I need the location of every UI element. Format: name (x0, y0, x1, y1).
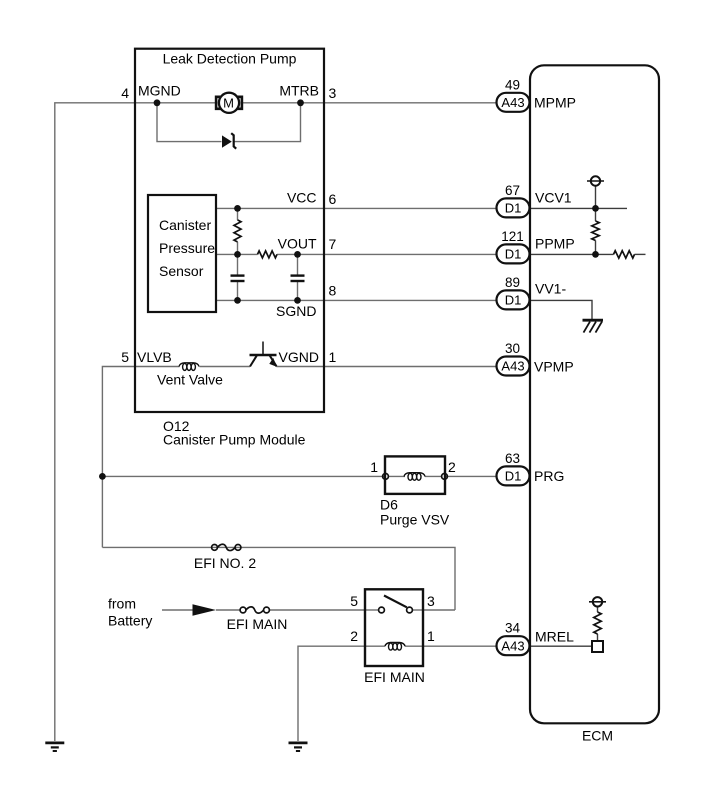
svg-text:A43: A43 (501, 638, 524, 653)
connector D1 pin 89 (VV1-) (497, 275, 530, 310)
ground left (MGND) (45, 743, 64, 751)
svg-text:1: 1 (370, 459, 378, 475)
wire SGND (216, 299, 497, 301)
connector D1 pin 121 (PPMP) (497, 229, 530, 264)
wire motor to MPMP (243, 102, 497, 104)
svg-text:2: 2 (448, 459, 456, 475)
wire VOUT to PPMP (277, 253, 497, 255)
node PRG junction (99, 473, 106, 480)
wire D6 internal (388, 475, 405, 477)
connector D1 pin 67 (VCV1) (497, 183, 530, 218)
svg-text:Canister: Canister (159, 217, 211, 233)
svg-text:34: 34 (505, 621, 521, 636)
wire VCC (216, 207, 497, 209)
svg-text:2: 2 (350, 628, 358, 644)
wire PPMP internal (530, 253, 614, 255)
wire VCV1 internal (530, 207, 627, 209)
svg-text:4: 4 (121, 85, 129, 101)
svg-text:D1: D1 (505, 469, 522, 484)
svg-text:Leak Detection Pump: Leak Detection Pump (163, 51, 297, 67)
wire inductor to transistor (200, 366, 251, 368)
terminal B+ circle at VCV1 (591, 176, 600, 185)
svg-text:ECM: ECM (582, 728, 613, 744)
svg-text:A43: A43 (501, 359, 524, 374)
node VOUT/R/C1 (234, 251, 241, 258)
node VCC/R (234, 205, 241, 212)
relay switch blade (384, 596, 407, 608)
svg-text:3: 3 (329, 85, 337, 101)
svg-text:EFI NO. 2: EFI NO. 2 (194, 555, 256, 571)
svg-text:VLVB: VLVB (137, 349, 172, 365)
wire diode loop right (233, 103, 301, 142)
Leak Detection Pump box (135, 49, 324, 412)
inductor relay coil (385, 643, 405, 647)
svg-text:D6: D6 (380, 497, 398, 513)
wire relay pin2 to ground (298, 646, 365, 741)
Purge VSV D6 box (385, 456, 445, 494)
ECM box (530, 65, 659, 723)
svg-text:M: M (223, 95, 234, 110)
svg-text:89: 89 (505, 275, 520, 290)
diode D zener in motor loop (222, 135, 232, 147)
wire relay contacts row (365, 609, 379, 611)
svg-text:VCV1: VCV1 (535, 190, 572, 206)
connector A43 pin 34 (MREL) (497, 621, 530, 656)
svg-text:PRG: PRG (534, 468, 564, 484)
svg-text:1: 1 (427, 628, 435, 644)
svg-text:Purge VSV: Purge VSV (380, 512, 450, 528)
motor M leak detection pump (216, 97, 222, 109)
svg-text:SGND: SGND (276, 303, 316, 319)
node MGND/diode (154, 99, 161, 106)
wire PRG left (102, 475, 385, 477)
svg-text:5: 5 (121, 349, 129, 365)
node SGND/C2 (294, 297, 301, 304)
arrow from battery (193, 604, 217, 615)
wire fuse to relay (270, 609, 366, 611)
wire relay pin3 (423, 609, 455, 611)
wire VOUT sensor segment (216, 253, 258, 255)
wire MREL terminal lead (597, 607, 599, 613)
node PPMP internal (592, 251, 599, 258)
terminal B+ circle at MREL (593, 597, 602, 606)
wire MGND to ground run (55, 103, 135, 741)
svg-text:8: 8 (329, 282, 337, 298)
wire relay coil row (365, 645, 385, 647)
pin 3 relay contact (407, 607, 413, 613)
node VCV1 internal (592, 205, 599, 212)
svg-text:from: from (108, 596, 136, 612)
wire VCV1 terminal lead (595, 186, 597, 221)
node VOUT/C2 (294, 251, 301, 258)
svg-text:Pressure: Pressure (159, 240, 215, 256)
wire VLVB run (102, 367, 179, 548)
wire transistor to VPMP (277, 366, 497, 368)
resistor R5 MREL internal (594, 612, 601, 634)
wire VV1- internal (530, 300, 592, 319)
node SGND/C1 (234, 297, 241, 304)
fuse EFI NO. 2 (212, 544, 241, 550)
svg-text:Battery: Battery (108, 613, 152, 629)
wire PRG right (445, 475, 497, 477)
svg-text:Vent Valve: Vent Valve (157, 372, 223, 388)
svg-text:3: 3 (427, 593, 435, 609)
node MTRB/diode (297, 99, 304, 106)
transistor Q1 vent valve driver (250, 354, 277, 356)
pin 1 D6 (383, 474, 389, 480)
wire relay pin1 to MREL (423, 645, 497, 647)
wire cap C2 leads (297, 254, 299, 275)
svg-text:6: 6 (329, 191, 337, 207)
svg-text:VOUT: VOUT (278, 235, 317, 251)
svg-text:MREL: MREL (535, 629, 574, 645)
resistor R4 PPMP series internal (614, 251, 635, 258)
svg-text:D1: D1 (505, 293, 522, 308)
svg-text:30: 30 (505, 341, 520, 356)
svg-text:EFI MAIN: EFI MAIN (227, 616, 288, 632)
wire MREL internal (530, 645, 592, 647)
ground chassis VV1- (583, 320, 604, 332)
pin 5 relay contact (379, 607, 385, 613)
wire diode loop left (157, 103, 222, 142)
svg-text:MGND: MGND (138, 83, 181, 99)
svg-text:121: 121 (501, 229, 524, 244)
svg-text:Sensor: Sensor (159, 263, 204, 279)
connector A43 pin 30 (VPMP) (497, 341, 530, 376)
svg-text:D1: D1 (505, 201, 522, 216)
svg-text:PPMP: PPMP (535, 236, 575, 252)
inductor vent valve coil (179, 363, 199, 367)
wire from battery (162, 609, 193, 611)
svg-text:67: 67 (505, 183, 520, 198)
resistor R1 sensor pull-up (234, 220, 241, 242)
wire sensor R leads (237, 208, 239, 220)
svg-text:MPMP: MPMP (534, 95, 576, 111)
svg-text:VPMP: VPMP (534, 358, 574, 374)
svg-text:VGND: VGND (279, 349, 319, 365)
svg-text:49: 49 (505, 77, 520, 92)
capacitor C2 (291, 276, 305, 281)
pin 2 D6 (442, 474, 448, 480)
svg-text:63: 63 (505, 451, 520, 466)
svg-text:A43: A43 (501, 95, 524, 110)
svg-text:7: 7 (329, 236, 337, 252)
connector A43 pin 49 (MPMP) (497, 77, 530, 112)
svg-text:Canister Pump Module: Canister Pump Module (163, 432, 306, 448)
wire EFI NO.2 run (102, 547, 455, 610)
ground center (relay coil) (289, 743, 308, 751)
svg-text:1: 1 (329, 349, 337, 365)
resistor R2 VOUT series (258, 251, 278, 258)
resistor R3 VCV1-PPMP internal (592, 221, 599, 241)
Canister Pressure Sensor box (148, 195, 216, 312)
wire MGND to motor (135, 102, 216, 104)
svg-text:5: 5 (350, 593, 358, 609)
svg-text:VV1-: VV1- (535, 281, 566, 297)
svg-text:D1: D1 (505, 247, 522, 262)
wire cap C1 leads (237, 254, 239, 275)
capacitor C1 (231, 276, 245, 281)
relay EFI MAIN box (365, 589, 423, 666)
connector D1 pin 63 (PRG) (497, 451, 530, 486)
svg-text:MTRB: MTRB (279, 83, 319, 99)
inductor purge VSV coil (404, 473, 425, 477)
MREL terminal square (592, 641, 603, 652)
svg-text:EFI MAIN: EFI MAIN (364, 669, 425, 685)
svg-text:VCC: VCC (287, 189, 317, 205)
fuse EFI MAIN (240, 607, 269, 613)
